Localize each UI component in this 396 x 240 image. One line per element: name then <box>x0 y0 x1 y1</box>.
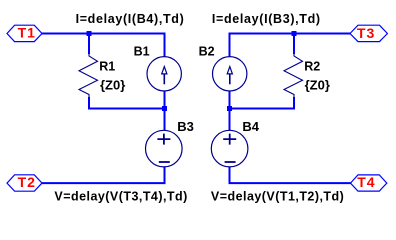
svg-text:B4: B4 <box>242 119 259 134</box>
svg-text:T2: T2 <box>18 174 36 190</box>
svg-text:V=delay(V(T3,T4),Td): V=delay(V(T3,T4),Td) <box>54 189 187 203</box>
svg-text:I=delay(I(B4),Td): I=delay(I(B4),Td) <box>76 12 185 26</box>
svg-text:I=delay(I(B3),Td): I=delay(I(B3),Td) <box>212 12 321 26</box>
svg-text:B3: B3 <box>177 119 194 134</box>
svg-text:V=delay(V(T1,T2),Td): V=delay(V(T1,T2),Td) <box>211 189 344 203</box>
svg-text:{Z0}: {Z0} <box>305 77 330 92</box>
svg-text:B2: B2 <box>199 44 215 58</box>
svg-text:T1: T1 <box>18 25 36 41</box>
svg-text:R1: R1 <box>99 59 115 73</box>
svg-text:B1: B1 <box>134 44 150 58</box>
svg-text:{Z0}: {Z0} <box>100 77 125 92</box>
svg-text:T4: T4 <box>357 174 375 190</box>
svg-text:T3: T3 <box>357 25 375 41</box>
svg-text:R2: R2 <box>304 59 320 73</box>
